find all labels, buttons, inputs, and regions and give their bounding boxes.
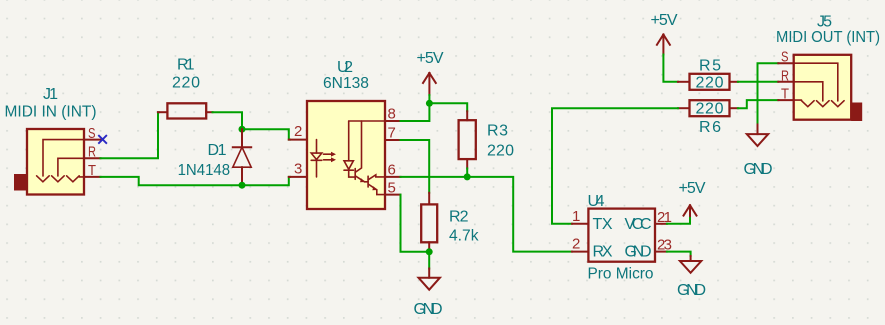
svg-text:GND: GND xyxy=(414,301,443,318)
wire R3 to node C xyxy=(466,168,468,177)
svg-text:MIDI IN (INT): MIDI IN (INT) xyxy=(5,104,97,121)
svg-text:VCC: VCC xyxy=(625,216,652,233)
node B junction xyxy=(239,182,246,189)
svg-text:MIDI OUT (INT): MIDI OUT (INT) xyxy=(776,29,880,46)
svg-text:3: 3 xyxy=(294,161,302,178)
power +5V at U4 pin 21 xyxy=(679,180,706,218)
connector J1 xyxy=(5,86,102,195)
no-connect X on J1 pin S xyxy=(98,135,107,144)
svg-text:6N138: 6N138 xyxy=(323,75,369,92)
svg-text:U4: U4 xyxy=(588,193,605,210)
wire J1.T to node B xyxy=(101,177,243,185)
svg-text:D1: D1 xyxy=(208,142,227,159)
wire node A to U2 pin 2 xyxy=(242,129,290,139)
svg-text:2: 2 xyxy=(572,236,580,253)
svg-text:T: T xyxy=(88,162,96,179)
svg-text:R: R xyxy=(781,68,789,85)
resistor R5 xyxy=(678,58,738,92)
power +5V above U2 xyxy=(417,50,444,103)
wire +5V node to R3 xyxy=(429,103,467,111)
node +5V junction xyxy=(426,100,433,107)
svg-text:S: S xyxy=(781,49,789,66)
svg-text:R3: R3 xyxy=(487,123,508,140)
svg-text:R2: R2 xyxy=(449,209,469,226)
svg-text:220: 220 xyxy=(696,74,724,91)
wire +5V to R5 xyxy=(663,55,678,82)
svg-text:8: 8 xyxy=(388,106,396,123)
resistor R3 xyxy=(459,111,514,168)
svg-text:GND: GND xyxy=(677,282,706,299)
U2 transistor Q1 xyxy=(354,169,356,180)
svg-text:+5V: +5V xyxy=(417,50,444,67)
svg-text:6: 6 xyxy=(388,162,396,179)
svg-text:R1: R1 xyxy=(177,57,195,74)
svg-text:7: 7 xyxy=(388,125,396,142)
U2 internal photodiode and rails xyxy=(349,120,385,122)
svg-text:R5: R5 xyxy=(699,58,721,75)
wire U4 pin 21 to +5V xyxy=(667,218,690,224)
wire J1.R to R1 xyxy=(101,112,159,158)
wire node C to U4 RX xyxy=(467,177,572,252)
wire R6 to U4 TX xyxy=(552,108,678,224)
node C junction xyxy=(464,173,471,180)
node D junction xyxy=(426,248,433,255)
svg-text:GND: GND xyxy=(625,244,652,261)
svg-text:2: 2 xyxy=(294,123,302,140)
U2 transistor Q2 xyxy=(367,176,369,187)
svg-text:220: 220 xyxy=(487,143,514,160)
connector J5 xyxy=(776,13,880,121)
wire U2 pin 5 to node D xyxy=(401,195,430,252)
U2 light arrows xyxy=(324,153,333,155)
svg-text:5: 5 xyxy=(388,180,396,197)
svg-text:J5: J5 xyxy=(817,13,832,30)
svg-text:S: S xyxy=(88,125,96,142)
wire J5.S to ground xyxy=(758,63,779,124)
wire U2 pin 6 to node C xyxy=(401,176,468,178)
svg-text:RX: RX xyxy=(593,244,613,261)
svg-text:220: 220 xyxy=(172,75,200,92)
svg-text:220: 220 xyxy=(696,101,724,118)
svg-text:U2: U2 xyxy=(337,59,353,76)
wire R6 to J5.T xyxy=(738,100,778,108)
wire R5 to J5.R xyxy=(738,81,778,83)
diode D1 xyxy=(178,129,252,185)
svg-text:GND: GND xyxy=(744,161,773,178)
svg-text:R6: R6 xyxy=(699,119,721,136)
U2 internal LED xyxy=(316,140,318,154)
wire U4 pin 23 to ground xyxy=(667,252,691,256)
module U4 Pro Micro xyxy=(572,193,672,283)
svg-text:T: T xyxy=(781,86,789,103)
svg-text:R: R xyxy=(88,144,96,161)
svg-text:+5V: +5V xyxy=(679,180,706,197)
wire R1 to node A xyxy=(213,112,243,129)
wire node B to U2 pin 3 xyxy=(242,177,290,185)
svg-text:4.7k: 4.7k xyxy=(449,228,479,245)
svg-text:TX: TX xyxy=(593,216,613,233)
svg-text:1N4148: 1N4148 xyxy=(178,162,231,179)
resistor R2 xyxy=(421,193,479,252)
power +5V right top xyxy=(651,12,678,55)
ground below J5 xyxy=(744,125,773,179)
node A junction xyxy=(239,126,246,133)
svg-text:J1: J1 xyxy=(43,86,58,103)
op-to-coupler U2 6N138 xyxy=(289,59,401,209)
wire U2 pin 8 to +5V node xyxy=(401,103,430,121)
ground at U4 pin 23 xyxy=(677,256,706,299)
svg-text:Pro Micro: Pro Micro xyxy=(588,266,654,283)
resistor R1 xyxy=(158,57,213,119)
wire U2 pin 7 to R2 xyxy=(401,140,430,193)
svg-text:+5V: +5V xyxy=(651,12,678,29)
ground below R2 xyxy=(414,252,443,318)
resistor R6 xyxy=(678,100,738,136)
svg-text:1: 1 xyxy=(572,208,580,225)
